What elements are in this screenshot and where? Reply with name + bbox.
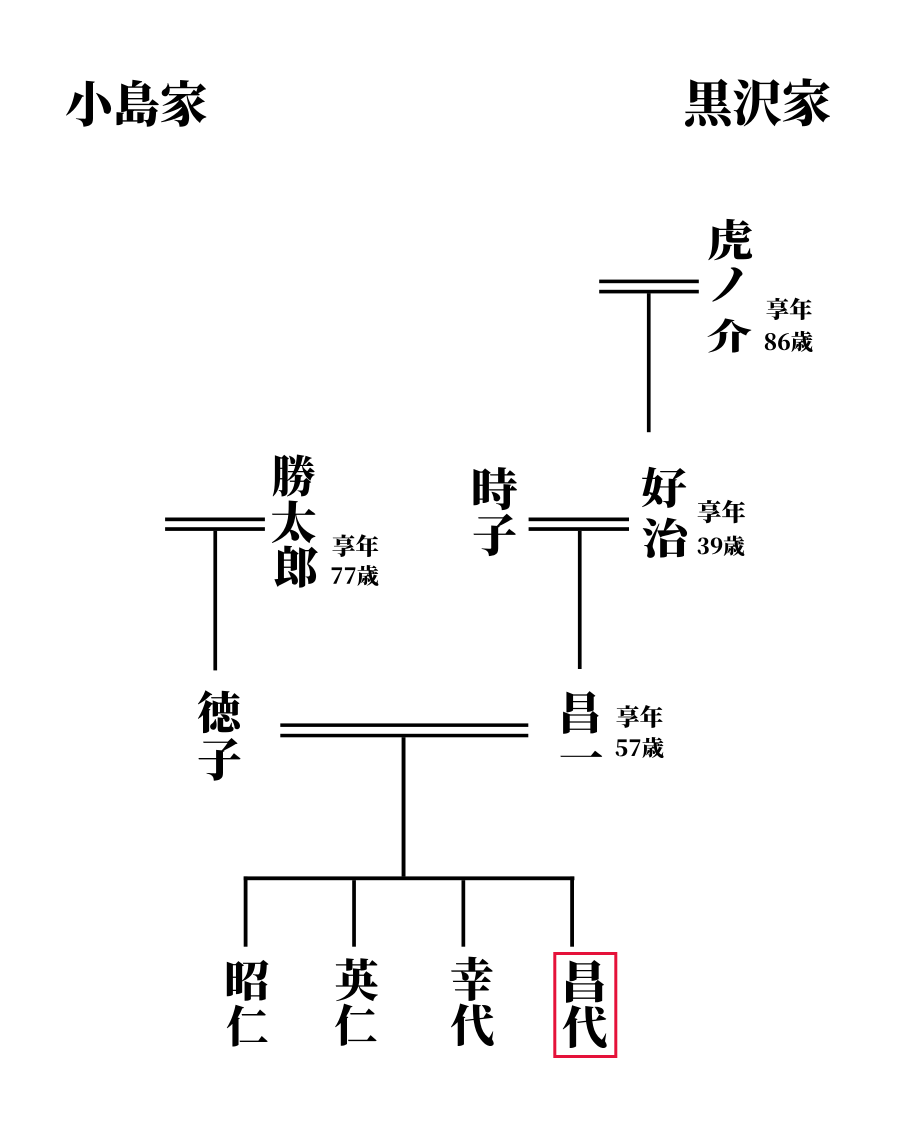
marriage double line M3 lower [529,527,629,531]
marriage double line M4 lower [280,734,528,738]
label Toranosuke age: kyonen (died at age) [766,298,811,320]
descent line from M1 down to Yoshiharu [647,293,651,432]
drop line to Yukiyo [462,880,466,947]
label Toranosuke age: 86 sai [765,331,813,352]
descent line from M4 down to sibling bar [402,737,406,876]
marriage double line M1 lower [599,290,699,294]
label Shoichi age: kyonen [616,705,662,728]
person Toranosuke (vertical name) [707,219,752,353]
marriage double line M4 (Tokuko=Shoichi) upper [280,723,528,727]
label Shoichi age: 57 sai [616,737,664,758]
marriage double line M2 (Katsutaro) upper [165,518,265,522]
person Katsutaro (vertical name) [272,455,318,588]
red highlight box around Masayo [555,954,616,1057]
marriage double line M3 (Tokiko=Yoshiharu) upper [529,518,629,522]
person Yoshiharu (vertical name) [642,467,687,558]
person Tokiko (vertical name) [474,467,518,556]
marriage double line M2 lower [165,527,265,531]
person Akihito (vertical name) [227,960,269,1047]
person Hidehito (vertical name) [335,958,378,1045]
descent line from M2 down to Tokuko [213,531,217,671]
person Masayo (vertical name, highlighted) [563,960,607,1048]
descent line from M3 down to Shoichi [578,531,582,669]
drop line to Hidehito [352,880,356,947]
person Shoichi (vertical name) [560,691,602,757]
sibling horizontal bar [244,876,575,880]
label Yoshiharu age: kyonen [698,500,746,523]
label Katsutaro age: 77 sai [332,565,379,586]
marriage double line M1 (Toranosuke) upper [599,280,699,284]
title Kurosawa-ke [685,78,830,126]
person Yukiyo (vertical name) [451,957,494,1046]
person Tokuko (vertical name) [198,690,241,780]
title Kojima-ke (small-island family) [66,80,206,127]
label Yoshiharu age: 39 sai [698,536,745,556]
drop line to Masayo [570,876,574,946]
label Katsutaro age: kyonen [332,534,378,557]
drop line to Akihito [244,876,248,946]
